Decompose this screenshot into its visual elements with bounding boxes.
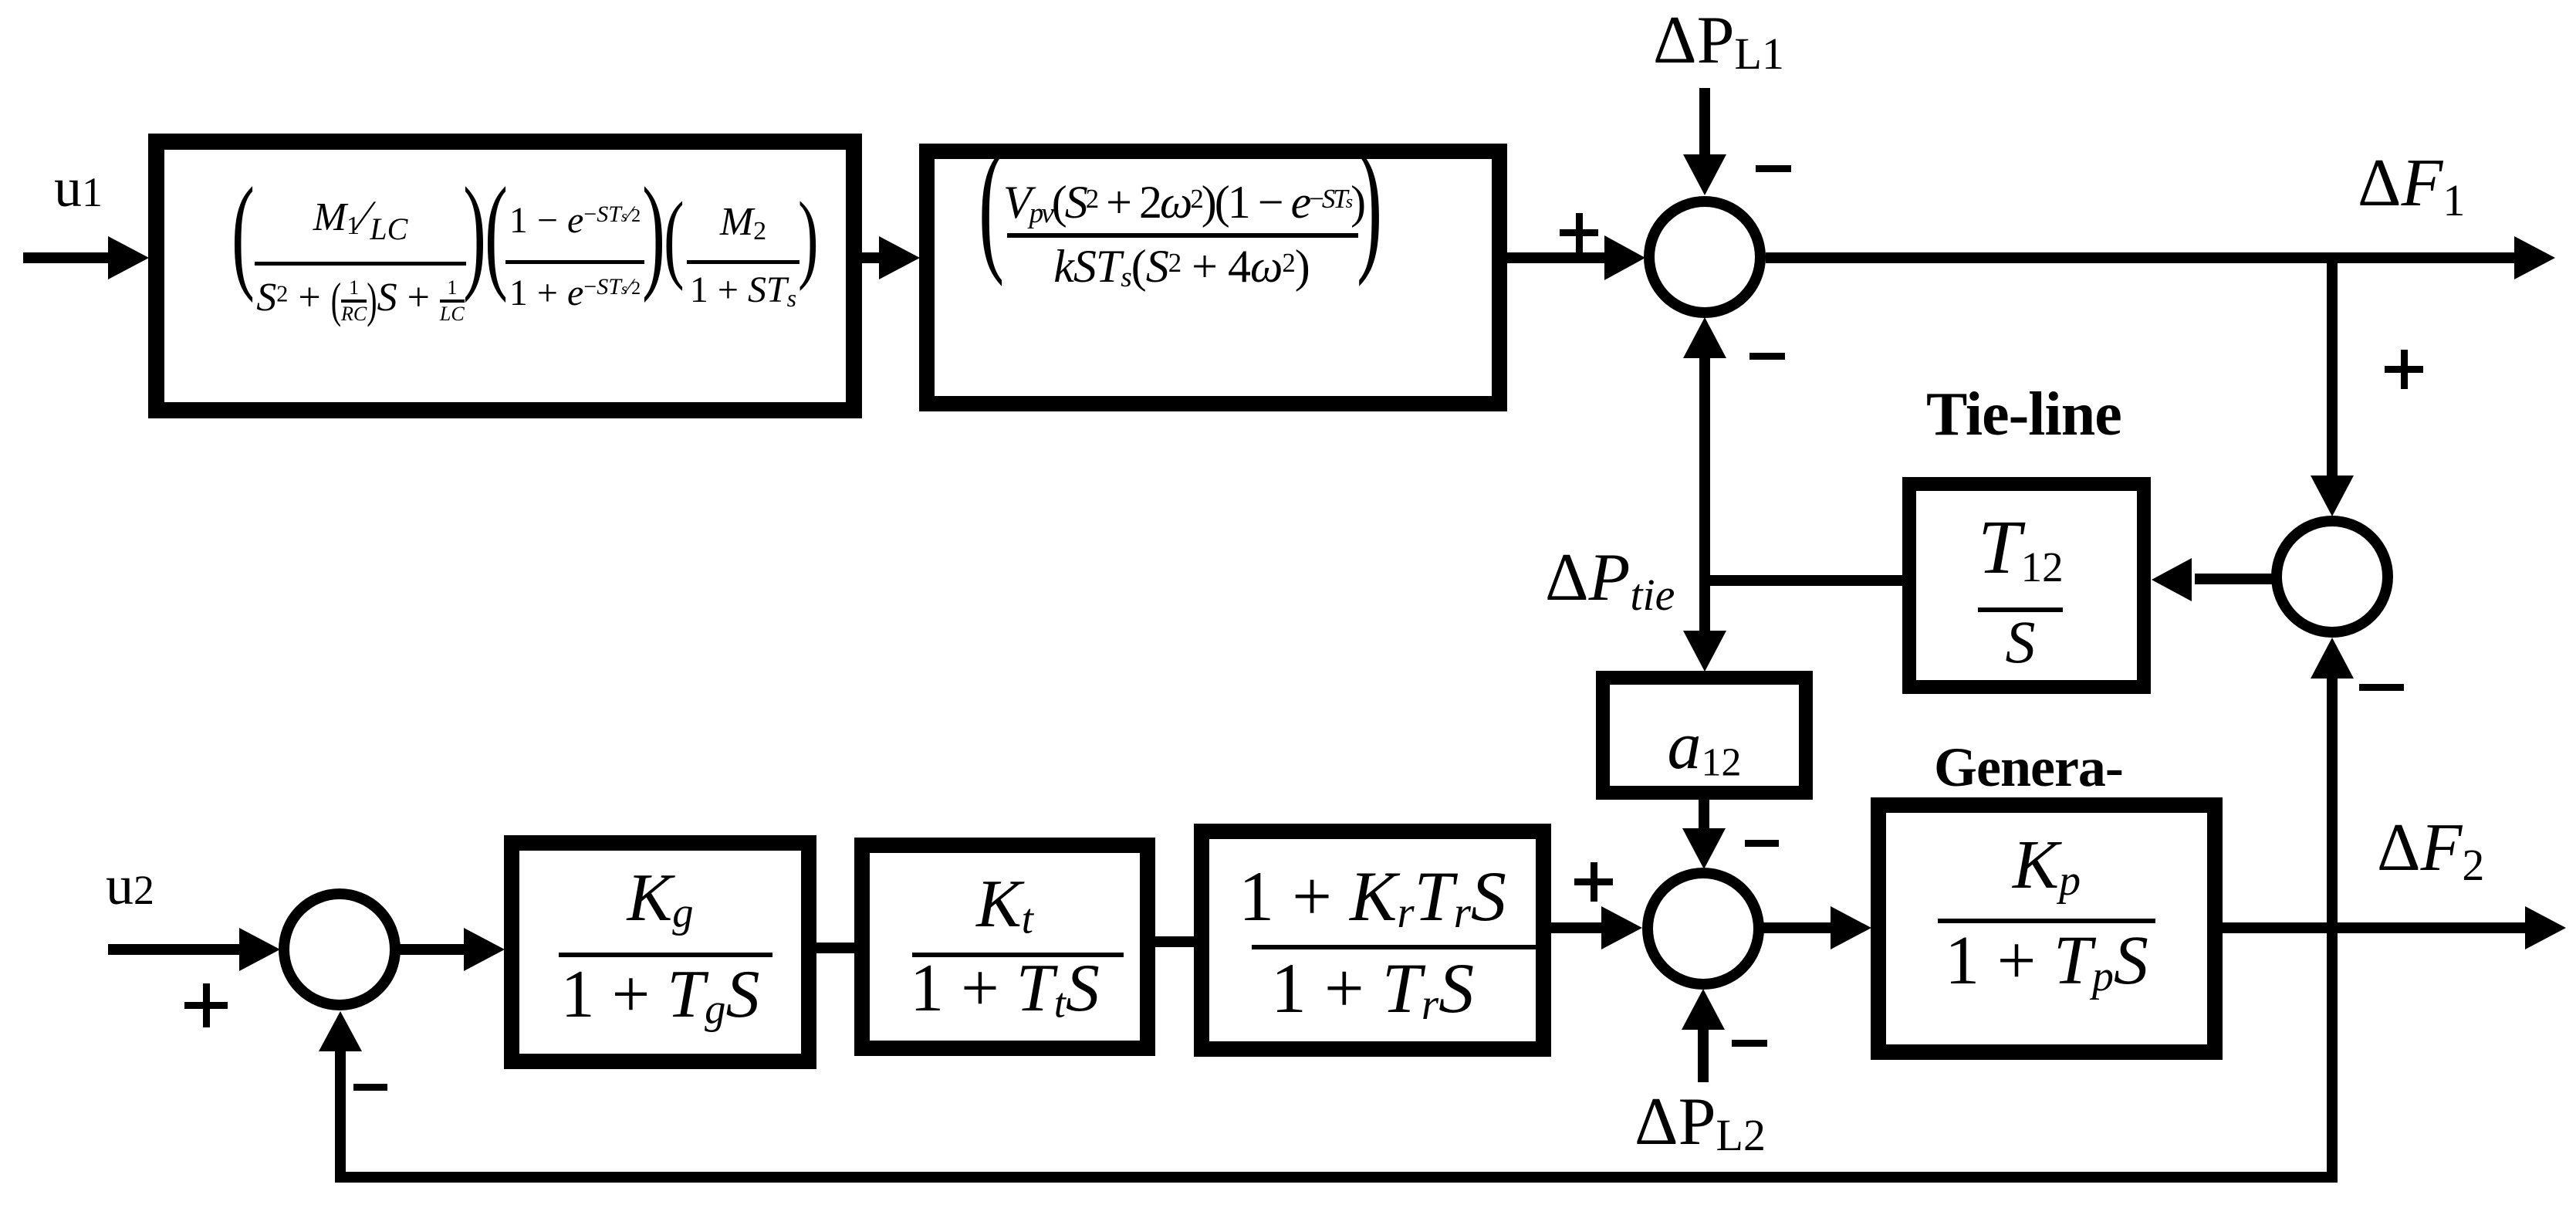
wire block KR to S2 [1551, 922, 1603, 933]
wire block KP to dF2 output [2223, 922, 2527, 933]
formula block KT: denominator 1+TtS [862, 955, 1148, 1024]
label dPL2 [1635, 1088, 1766, 1158]
wire dPL2 up into S2 [1698, 1028, 1709, 1082]
block KR: reheat box [1202, 831, 1543, 1049]
summing junction S4 (u2 input) [284, 894, 395, 1005]
wire block KG to block KT [816, 943, 854, 953]
sign minus at S4 feedback [353, 1084, 387, 1091]
label dF2 [2377, 814, 2484, 888]
wire S1 to dF1 output [1766, 252, 2516, 263]
formula block U1: big parens [232, 199, 255, 269]
formula block KG: denominator 1+TgS [512, 961, 809, 1031]
label Genera- [1934, 739, 2123, 795]
formula block KT: numerator Kt [862, 871, 1148, 940]
formula block KP: numerator Kp [1878, 831, 2215, 903]
block T12: tie-line T12/S box [1909, 484, 2144, 687]
sign plus at S1 input [1560, 229, 1598, 236]
sign minus below S3 [2359, 684, 2404, 691]
sign minus above S2 [1745, 840, 1779, 847]
summing junction S3 (tie-line) [2277, 521, 2388, 632]
wire dPL1 down into S1 [1699, 88, 1710, 156]
formula block U1 f2: denominator 1+e^-STs/2 [505, 275, 644, 312]
wire block T12 output to dPtie node [1699, 575, 1909, 586]
formula block U2: numerator [1003, 179, 1360, 228]
sign minus below S2 [1732, 1040, 1767, 1047]
formula block U1 f3: denominator 1+STs [687, 272, 800, 310]
formula block U1 f1: denominator S2+(1/RC)S+1/LC [255, 278, 466, 324]
formula block U1 f3: numerator M2 [687, 202, 800, 245]
sign plus at u2 input [184, 1002, 228, 1009]
block U1: PV system transfer function box [157, 142, 854, 411]
fraction bar B1.f3 [687, 260, 800, 264]
fraction bar KR [1252, 945, 1536, 949]
formula block U2: big parens [979, 166, 1004, 243]
formula block A12: a12 [1603, 712, 1806, 783]
formula block T12: numerator T12 [1978, 509, 2063, 588]
sign minus below S1 [1749, 353, 1785, 360]
summing junction S2 (area 2) [1648, 873, 1759, 984]
fraction bar B1.f1 [255, 262, 466, 266]
fraction bar B2 [1007, 233, 1358, 238]
wire branch from dF1 down into tie summing junction S3 [2327, 258, 2338, 477]
wire dPtie vertical [1699, 355, 1710, 633]
block KT: turbine Kt box [862, 845, 1148, 1048]
sign plus at S2 input [1574, 878, 1613, 885]
block KG: governor Kg box [512, 843, 809, 1061]
wire block U1 to block U2 [862, 252, 881, 263]
formula block T12: denominator S [1978, 612, 2063, 672]
sign plus above S3 [2385, 366, 2423, 373]
formula block U2: denominator [1003, 243, 1360, 292]
label u2 [106, 858, 154, 913]
formula block U1 f2: numerator 1-e^-STs/2 [505, 202, 644, 239]
fraction bar KP [1938, 919, 2155, 923]
wire S4 to block KG [400, 944, 465, 955]
fraction bar B1.f2 [505, 260, 644, 264]
wire u1 into block U1 [23, 252, 110, 263]
formula block KR: numerator 1+KrTrS [1202, 861, 1543, 935]
summing junction S1 (area 1) [1649, 201, 1760, 313]
block U2: Vpv transfer function box [927, 151, 1499, 404]
label Tie-line [1926, 384, 2121, 445]
wire block A12 down into S2 [1699, 800, 1709, 829]
sign minus above S1 [1756, 165, 1791, 172]
formula block U1 f1: numerator M1/LC [255, 195, 466, 245]
label dF1 [2358, 150, 2465, 223]
fraction bar KT [912, 953, 1124, 957]
wire S3 output left into block T12 [2195, 574, 2272, 584]
label u1 [54, 160, 103, 215]
formula block KG: numerator Kg [512, 865, 809, 934]
label dPtie [1545, 544, 1675, 618]
formula block KR: denominator 1+TrS [1202, 953, 1543, 1027]
label dPL1 [1653, 7, 1784, 76]
arrow dPtie up into S1 (minus) [1683, 317, 1726, 358]
wire block KT to block KR [1155, 936, 1194, 947]
fraction bar T12 [1978, 607, 2063, 612]
wire block U2 to summing junction S1 [1507, 252, 1606, 263]
wire feedback vertical below S3 [2327, 677, 2338, 1183]
wire feedback bottom horizontal [335, 1172, 2338, 1183]
formula block KP: denominator 1+TpS [1878, 926, 2215, 999]
wire feedback left vertical up into S4 [335, 1050, 346, 1177]
block A12: a12 gain box [1603, 678, 1806, 793]
wire u2 into S4 [108, 944, 241, 955]
wire S2 to block KP [1763, 922, 1832, 933]
arrow dPtie down into block A12 [1683, 631, 1726, 672]
block KP: generator Kp box [1878, 805, 2215, 1052]
fraction bar KG [559, 953, 772, 957]
